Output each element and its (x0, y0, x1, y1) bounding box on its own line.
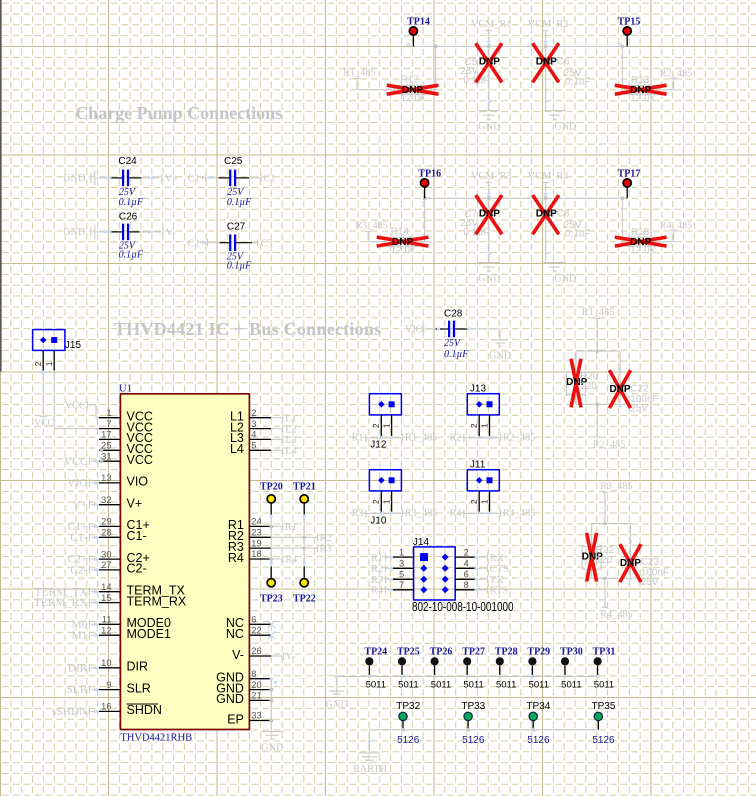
svg-text:DNP: DNP (392, 237, 413, 248)
svg-text:R2_485: R2_485 (593, 440, 626, 451)
svg-text:C1+: C1+ (188, 174, 206, 185)
svg-text:5: 5 (251, 441, 256, 451)
svg-text:C25: C25 (224, 156, 243, 167)
svg-text:26: 26 (251, 646, 261, 656)
svg-text:VCM_R4: VCM_R4 (528, 171, 569, 182)
svg-text:2: 2 (469, 423, 479, 428)
svg-text:V+: V+ (165, 174, 178, 185)
svg-text:R2_485: R2_485 (503, 432, 536, 443)
svg-text:2: 2 (33, 361, 43, 366)
svg-text:R2_485: R2_485 (660, 68, 693, 79)
svg-text:VCC: VCC (127, 453, 153, 467)
svg-text:R4: R4 (285, 555, 297, 566)
svg-text:12: 12 (101, 625, 111, 635)
svg-text:R2: R2 (371, 564, 383, 575)
svg-text:0.1uF: 0.1uF (565, 229, 591, 240)
svg-text:25V: 25V (444, 338, 462, 349)
svg-text:TP17: TP17 (618, 168, 641, 179)
svg-text:C26: C26 (119, 212, 138, 223)
svg-text:18: 18 (251, 549, 261, 559)
svg-text:3: 3 (399, 559, 404, 569)
svg-text:C8: C8 (557, 209, 570, 220)
svg-text:R17: R17 (401, 75, 420, 86)
svg-text:GND: GND (554, 121, 577, 132)
svg-text:1: 1 (479, 499, 489, 504)
svg-text:SHDN: SHDN (127, 703, 162, 717)
svg-text:VIO: VIO (405, 324, 424, 335)
svg-text:2: 2 (251, 408, 256, 418)
svg-text:1: 1 (106, 408, 111, 418)
svg-text:M1: M1 (72, 630, 88, 642)
svg-text:R4: R4 (371, 586, 383, 597)
svg-text:EP: EP (227, 712, 244, 726)
svg-text:V-: V- (286, 652, 296, 663)
svg-text:J15: J15 (65, 340, 82, 351)
svg-text:SLR: SLR (127, 681, 151, 695)
svg-text:L1: L1 (285, 413, 296, 424)
svg-text:R4_485: R4_485 (600, 610, 633, 621)
svg-text:R3_485: R3_485 (405, 508, 438, 519)
svg-text:9: 9 (106, 680, 111, 690)
svg-text:11: 11 (102, 615, 112, 625)
svg-text:GND: GND (63, 227, 86, 238)
svg-text:VCM_R3: VCM_R3 (471, 171, 512, 182)
svg-text:5126: 5126 (592, 735, 615, 746)
svg-text:TERM_RX: TERM_RX (127, 594, 187, 608)
svg-text:V+: V+ (73, 499, 88, 511)
svg-text:120: 120 (596, 555, 613, 566)
svg-text:CTS: CTS (490, 564, 509, 575)
svg-text:2: 2 (371, 499, 381, 504)
svg-text:21: 21 (251, 691, 261, 701)
svg-text:5011: 5011 (366, 679, 386, 690)
svg-text:TP15: TP15 (618, 16, 641, 27)
svg-text:5126: 5126 (397, 735, 420, 746)
svg-text:TP32: TP32 (396, 701, 420, 712)
svg-text:L4: L4 (230, 442, 244, 456)
svg-text:THVD4421 IC + Bus Connections: THVD4421 IC + Bus Connections (114, 319, 382, 339)
svg-text:30: 30 (101, 549, 111, 559)
svg-text:25V: 25V (641, 577, 659, 588)
svg-text:14: 14 (101, 582, 111, 592)
svg-text:5011: 5011 (463, 679, 483, 690)
svg-text:DNP: DNP (479, 57, 500, 68)
svg-text:20: 20 (251, 680, 261, 690)
svg-text:L4: L4 (285, 446, 296, 457)
svg-text:DNP: DNP (402, 85, 423, 96)
svg-text:TP16: TP16 (418, 168, 441, 179)
svg-text:32: 32 (101, 495, 111, 505)
svg-text:EARTH: EARTH (353, 764, 387, 775)
svg-text:23: 23 (251, 528, 261, 538)
svg-text:L2: L2 (285, 424, 296, 435)
svg-text:R1: R1 (371, 553, 383, 564)
svg-text:16: 16 (101, 702, 111, 712)
svg-text:1: 1 (399, 547, 404, 557)
svg-text:R3: R3 (371, 575, 383, 586)
svg-text:R3_485: R3_485 (600, 481, 633, 492)
svg-text:J11: J11 (470, 459, 486, 470)
svg-text:R1_485: R1_485 (343, 67, 376, 78)
svg-text:VIO: VIO (67, 478, 87, 490)
svg-text:5011: 5011 (431, 679, 451, 690)
svg-text:2: 2 (469, 499, 479, 504)
svg-text:C6: C6 (557, 57, 570, 68)
svg-text:TP23: TP23 (260, 594, 283, 605)
svg-text:V-: V- (166, 228, 176, 239)
svg-text:33: 33 (251, 711, 261, 721)
svg-text:R1: R1 (352, 432, 364, 443)
svg-text:RX: RX (490, 553, 505, 564)
svg-text:0.1µF: 0.1µF (444, 349, 469, 360)
svg-text:1: 1 (44, 361, 54, 366)
svg-text:TP31: TP31 (593, 647, 616, 658)
svg-text:TP22: TP22 (293, 594, 316, 605)
svg-text:0.1µF: 0.1µF (119, 250, 144, 261)
svg-text:8: 8 (464, 580, 469, 590)
svg-text:0.1µF: 0.1µF (227, 197, 252, 208)
svg-text:J10: J10 (370, 516, 387, 527)
svg-text:L3: L3 (285, 435, 296, 446)
svg-text:5011: 5011 (496, 679, 516, 690)
svg-text:GND: GND (489, 351, 512, 362)
svg-text:10: 10 (101, 658, 111, 668)
svg-text:5011: 5011 (594, 679, 614, 690)
svg-text:TP30: TP30 (560, 647, 583, 658)
svg-text:GND: GND (63, 173, 86, 184)
svg-text:C1: C1 (264, 174, 276, 185)
svg-text:VCC: VCC (64, 456, 88, 468)
svg-text:27: 27 (101, 560, 111, 570)
svg-text:DNP: DNP (536, 208, 557, 219)
svg-text:7: 7 (399, 580, 404, 590)
svg-text:R3_485: R3_485 (355, 220, 388, 231)
svg-text:GND: GND (478, 121, 501, 132)
svg-text:TP28: TP28 (495, 647, 518, 658)
svg-text:C2+: C2+ (188, 238, 206, 249)
svg-text:DNP: DNP (630, 85, 651, 96)
svg-text:TP27: TP27 (462, 647, 485, 658)
svg-text:TP26: TP26 (430, 647, 453, 658)
svg-text:VCM_R1: VCM_R1 (471, 19, 512, 30)
svg-text:5011: 5011 (398, 679, 418, 690)
svg-text:J12: J12 (370, 440, 387, 451)
svg-text:5126: 5126 (527, 735, 550, 746)
svg-text:13: 13 (101, 473, 111, 483)
svg-text:120: 120 (580, 381, 597, 392)
svg-text:8: 8 (251, 669, 256, 679)
svg-text:22: 22 (251, 625, 261, 635)
svg-text:TP24: TP24 (364, 647, 387, 658)
svg-text:GND: GND (478, 273, 501, 284)
svg-text:DNP: DNP (630, 237, 651, 248)
svg-text:C1-: C1- (127, 529, 147, 543)
svg-text:0.1µF: 0.1µF (227, 261, 252, 272)
svg-text:GND: GND (216, 692, 244, 706)
svg-text:MODE1: MODE1 (127, 627, 172, 641)
svg-text:3: 3 (251, 419, 256, 429)
svg-text:1: 1 (479, 423, 489, 428)
svg-text:R4_485: R4_485 (503, 508, 536, 519)
svg-text:Charge Pump Connections: Charge Pump Connections (75, 103, 282, 123)
svg-text:V-: V- (232, 648, 244, 662)
svg-text:802-10-008-10-001000: 802-10-008-10-001000 (412, 600, 514, 614)
svg-text:DIR: DIR (68, 662, 88, 674)
svg-text:R1_485: R1_485 (582, 307, 615, 318)
svg-text:DNP: DNP (536, 57, 557, 68)
svg-text:GND: GND (554, 273, 577, 284)
svg-text:5126: 5126 (462, 735, 485, 746)
svg-text:TP34: TP34 (526, 701, 550, 712)
svg-text:DNP: DNP (620, 558, 641, 569)
svg-text:19: 19 (251, 538, 261, 548)
svg-text:R4_485: R4_485 (660, 220, 693, 231)
svg-text:DNP: DNP (479, 208, 500, 219)
svg-text:C28: C28 (444, 308, 463, 319)
svg-text:2: 2 (464, 547, 469, 557)
svg-text:24: 24 (251, 517, 261, 527)
svg-text:RTS: RTS (490, 586, 509, 597)
svg-text:V+: V+ (127, 497, 143, 511)
svg-text:VIO: VIO (127, 475, 149, 489)
svg-text:GND: GND (261, 743, 284, 754)
svg-text:C3: C3 (261, 238, 273, 249)
svg-text:29: 29 (101, 517, 111, 527)
svg-text:THVD4421RHB: THVD4421RHB (120, 732, 192, 743)
svg-text:4: 4 (464, 559, 469, 569)
svg-text:U1: U1 (119, 383, 132, 394)
svg-text:TP14: TP14 (407, 16, 430, 27)
svg-text:17: 17 (101, 430, 111, 440)
svg-text:DNP: DNP (609, 384, 630, 395)
svg-text:4: 4 (251, 430, 256, 440)
svg-text:R1_485: R1_485 (405, 432, 438, 443)
svg-text:C27: C27 (227, 222, 246, 233)
svg-text:TX: TX (490, 575, 504, 586)
svg-text:R4: R4 (450, 508, 462, 519)
svg-text:C2-: C2- (70, 565, 87, 577)
svg-text:R1: R1 (285, 522, 297, 533)
svg-text:28: 28 (101, 528, 111, 538)
svg-text:R14: R14 (391, 227, 410, 238)
svg-text:VCM_R2: VCM_R2 (528, 19, 569, 30)
svg-text:1: 1 (381, 423, 391, 428)
svg-text:TP20: TP20 (260, 481, 283, 492)
svg-text:15: 15 (101, 593, 111, 603)
svg-text:7: 7 (106, 419, 111, 429)
svg-text:1: 1 (381, 499, 391, 504)
svg-text:TP35: TP35 (592, 701, 616, 712)
svg-text:TERM_RX: TERM_RX (34, 597, 88, 609)
svg-text:0.1uF: 0.1uF (565, 77, 591, 88)
svg-text:25V: 25V (630, 404, 648, 415)
svg-text:sSHDN: sSHDN (52, 706, 88, 718)
svg-text:6: 6 (251, 615, 256, 625)
svg-text:VCC: VCC (65, 400, 86, 411)
svg-text:2: 2 (371, 423, 381, 428)
svg-text:R3: R3 (320, 544, 332, 555)
svg-text:5: 5 (399, 570, 404, 580)
svg-text:TP33: TP33 (461, 701, 485, 712)
svg-text:J13: J13 (470, 383, 487, 394)
svg-text:C1-: C1- (70, 532, 87, 544)
svg-text:6: 6 (464, 570, 469, 580)
svg-text:R3: R3 (352, 508, 364, 519)
svg-text:DIR: DIR (127, 660, 149, 674)
svg-text:R2: R2 (320, 533, 332, 544)
svg-text:5011: 5011 (561, 679, 581, 690)
svg-text:SLR: SLR (66, 684, 87, 696)
svg-text:C2-: C2- (127, 562, 147, 576)
svg-text:5011: 5011 (529, 679, 549, 690)
svg-text:0.1µF: 0.1µF (119, 197, 144, 208)
svg-text:VCC: VCC (34, 419, 54, 429)
svg-text:TP21: TP21 (293, 481, 316, 492)
svg-text:R4: R4 (228, 551, 244, 565)
svg-text:TP29: TP29 (527, 647, 550, 658)
svg-text:C24: C24 (118, 156, 137, 167)
svg-text:GND: GND (326, 700, 349, 711)
svg-text:NC: NC (226, 627, 244, 641)
svg-text:R2: R2 (450, 432, 462, 443)
svg-text:TP25: TP25 (397, 647, 420, 658)
